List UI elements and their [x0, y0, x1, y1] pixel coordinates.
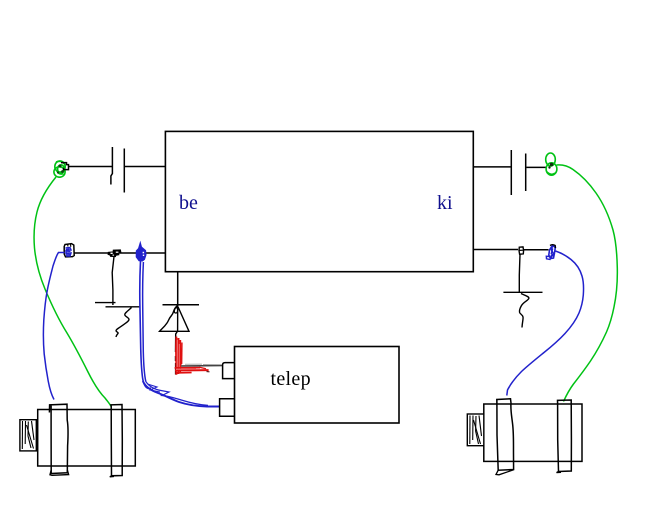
wire: capacitor C2 to right terminal [527, 166, 548, 168]
dark wire: red junction to battery plus terminal [178, 365, 223, 367]
dark mark inside right green terminal [550, 163, 554, 167]
green wire: left terminal down to left machine [34, 177, 111, 407]
ground (right): earth squiggle [519, 294, 528, 328]
left machine band 1 [49, 404, 68, 473]
wire: left plug to box left (input line) [75, 252, 166, 254]
left machine body [38, 410, 136, 467]
battery B1 (telep) box [235, 347, 400, 424]
ground (right): bar [503, 291, 542, 293]
right machine shaft box (hatched) [467, 414, 484, 446]
left machine band 1 foot [50, 470, 69, 475]
dark dots inside green terminal [59, 165, 62, 168]
blue wire: right plug down to right machine [507, 251, 584, 396]
capacitor C1 right plate [123, 149, 125, 193]
gray strand: junction to battery plus [185, 363, 202, 365]
wire: box bottom to diode D1 [177, 272, 179, 305]
wire: capacitor C1 to box left [125, 166, 166, 168]
wire: diode D1 down (black under red) [176, 305, 178, 352]
capacitor C1 left plate [111, 147, 113, 185]
right machine body [484, 404, 582, 461]
left machine band 2 [110, 405, 122, 476]
wire: box right output line [473, 249, 518, 251]
left machine band 2 foot [110, 476, 114, 477]
capacitor C2 left plate [510, 150, 512, 195]
svg-text:be: be [179, 192, 198, 214]
green wire: right terminal down to right machine [557, 165, 618, 402]
ground (left): bar 1 [95, 302, 116, 304]
ground (left): bar 2 [106, 306, 141, 308]
battery minus terminal bracket [220, 399, 235, 417]
microphone connector plug (black outline, left) [64, 244, 74, 257]
diode D1 apex loop [174, 307, 177, 314]
blue junction blob on input wire [136, 243, 146, 262]
ground (left): stem [112, 257, 114, 306]
capacitor C2 right plate [525, 154, 527, 192]
blue plug scribble (right) [549, 246, 556, 259]
left machine shaft hatching [22, 421, 34, 449]
small component scribble on output wire [519, 247, 524, 254]
small switch scribble on input wire [108, 250, 121, 257]
red wire scribble: horizontal run to battery plus [175, 367, 210, 373]
black cap on right blue plug [550, 245, 556, 248]
ground (left): earth squiggle [116, 308, 132, 338]
battery plus terminal bracket [223, 363, 235, 379]
diode D1 cathode bar [163, 304, 200, 306]
wire: left earpiece to capacitor C1 [69, 166, 112, 168]
wire: box right to capacitor C2 [473, 166, 511, 168]
blue wire: left plug down to left machine [43, 253, 64, 400]
right machine shaft hatching [470, 416, 482, 445]
right machine band 2 [558, 400, 572, 472]
svg-text:telep: telep [271, 368, 311, 390]
black hook bracket on green terminal [61, 163, 69, 170]
blue scribble inside left plug [66, 248, 72, 257]
right machine band 1 [497, 399, 514, 470]
black dashes under red run [175, 356, 177, 375]
red wire scribble: vertical run [176, 337, 182, 375]
ground (right): stem [518, 254, 521, 292]
earpiece terminal scribble (green, top-left) [54, 161, 65, 177]
earpiece terminal scribble (green, top-right) [546, 153, 557, 175]
right machine band 2 foot [557, 472, 562, 473]
blue thick wire: junction blob down to battery minus [140, 261, 219, 407]
svg-text:ki: ki [437, 192, 453, 214]
diode D1 triangle (hand drawn) [160, 306, 190, 331]
right machine band 1 foot [496, 470, 514, 475]
left machine shaft box (hatched) [20, 420, 36, 451]
wire: component to blue blob (right) [524, 249, 549, 251]
amplifier box U1 [165, 131, 473, 271]
